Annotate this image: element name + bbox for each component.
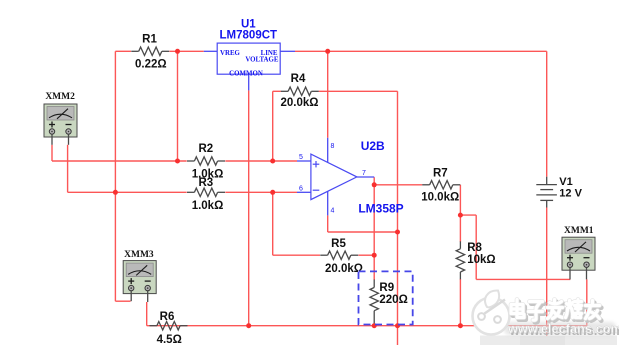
svg-text:5: 5 (299, 154, 303, 161)
svg-text:0.22Ω: 0.22Ω (135, 59, 167, 71)
svg-text:R9: R9 (379, 282, 394, 294)
svg-text:R2: R2 (198, 143, 213, 155)
svg-text:8: 8 (331, 143, 335, 150)
svg-text:10.0kΩ: 10.0kΩ (421, 192, 459, 204)
svg-text:1.0kΩ: 1.0kΩ (192, 200, 224, 212)
svg-text:R8: R8 (467, 242, 482, 254)
svg-text:VREG: VREG (220, 50, 241, 57)
svg-text:7: 7 (362, 170, 366, 177)
svg-text:4.5Ω: 4.5Ω (157, 334, 182, 345)
svg-text:www.elecfans.com: www.elecfans.com (507, 322, 619, 336)
svg-text:XMM1: XMM1 (564, 226, 594, 236)
svg-text:R7: R7 (433, 167, 448, 179)
svg-text:R4: R4 (291, 73, 306, 85)
svg-text:R1: R1 (142, 34, 157, 46)
svg-text:V1: V1 (559, 176, 572, 188)
svg-text:12 V: 12 V (559, 188, 582, 200)
svg-text:10kΩ: 10kΩ (467, 254, 495, 266)
svg-text:XMM2: XMM2 (45, 92, 75, 102)
svg-text:4: 4 (331, 208, 335, 215)
svg-text:U2B: U2B (361, 139, 385, 153)
svg-text:LM7809CT: LM7809CT (220, 30, 278, 42)
svg-text:COMMON: COMMON (229, 70, 263, 77)
svg-text:R5: R5 (331, 238, 346, 250)
svg-text:XMM3: XMM3 (124, 250, 154, 260)
svg-text:LM358P: LM358P (358, 202, 403, 216)
svg-text:VOLTAGE: VOLTAGE (245, 57, 279, 64)
svg-text:20.0kΩ: 20.0kΩ (325, 263, 363, 275)
svg-text:6: 6 (299, 186, 303, 193)
svg-text:R6: R6 (160, 311, 175, 323)
svg-text:R3: R3 (198, 177, 213, 189)
svg-text:20.0kΩ: 20.0kΩ (281, 97, 319, 109)
svg-text:220Ω: 220Ω (379, 294, 407, 306)
